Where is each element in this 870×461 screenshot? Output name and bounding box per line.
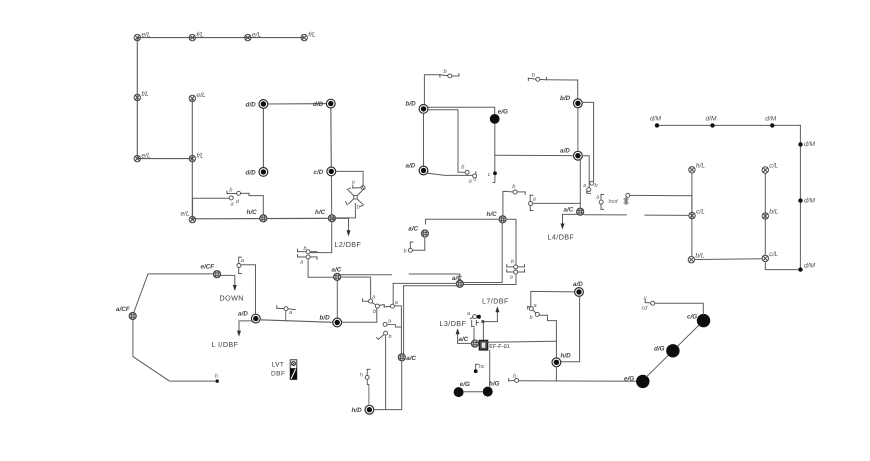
- legend symbol: [290, 360, 297, 380]
- wire corner to h/C: [426, 219, 499, 224]
- wire: [137, 38, 192, 159]
- lamp e/L: [245, 31, 262, 41]
- svg-text:a/D: a/D: [560, 148, 570, 155]
- wire h/D down to bottom bus: [555, 367, 557, 381]
- wire EF box right to h/D drop: [488, 341, 557, 342]
- wire switch b to h/D: [539, 315, 556, 358]
- svg-text:e/L: e/L: [142, 31, 151, 38]
- wire switch to b/D: [547, 80, 578, 99]
- wire switch down corner to a/C: [463, 274, 516, 285]
- svg-text:d/D: d/D: [313, 101, 324, 108]
- lamp f/L: [134, 91, 149, 101]
- wire c/L down to d/M: [765, 262, 798, 270]
- bracket hooks: [472, 320, 479, 326]
- wire fan to h/C: [336, 204, 356, 218]
- svg-text:c/L: c/L: [769, 163, 778, 170]
- svg-text:f/L: f/L: [197, 152, 205, 159]
- wire arrow base left to switch cluster: [483, 321, 497, 323]
- svg-text:d/G: d/G: [654, 345, 665, 352]
- svg-text:a: a: [534, 303, 537, 309]
- fan coil a/C: [459, 336, 479, 347]
- svg-text:a/D: a/D: [238, 310, 248, 317]
- downlight d/D: [246, 100, 268, 109]
- downlight b/D: [406, 101, 428, 114]
- svg-text:b: b: [404, 248, 407, 255]
- switch b,a two-gang: [227, 191, 249, 196]
- svg-text:a/C: a/C: [332, 266, 342, 273]
- switch b/a two-gang: [298, 249, 318, 259]
- wire a/D to b/D: [260, 320, 332, 323]
- svg-text:b: b: [444, 68, 447, 75]
- wire b/D right to e/G: [428, 107, 495, 113]
- L4/DBF arrow: [563, 214, 577, 223]
- switch h on stub above h/D: [367, 380, 369, 406]
- lamp f/L: [189, 152, 204, 162]
- svg-text:L4/DBF: L4/DBF: [548, 233, 575, 242]
- svg-text:d/M: d/M: [650, 115, 661, 122]
- lamp b/L: [762, 209, 779, 220]
- svg-text:a/C: a/C: [452, 275, 462, 282]
- wire line C left from corner to a/C: [404, 285, 457, 287]
- fan coil a/C: [398, 354, 416, 363]
- lamp c/L: [689, 208, 705, 219]
- node c: [493, 171, 497, 175]
- svg-text:d/M: d/M: [804, 197, 815, 204]
- svg-text:a: a: [533, 196, 536, 202]
- svg-text:e/G: e/G: [460, 381, 470, 388]
- wire switch a to vertical: [395, 306, 402, 353]
- fan coil symbol h/C: [247, 209, 267, 222]
- wire a/CF down diagonal to b point: [133, 320, 215, 381]
- switch u above fan: [353, 185, 361, 188]
- downlight b/D: [560, 95, 582, 108]
- svg-text:e/L: e/L: [142, 152, 151, 159]
- wire: [191, 98, 193, 219]
- svg-text:b/L: b/L: [769, 209, 778, 216]
- svg-text:e/L: e/L: [181, 211, 190, 218]
- fan coil a/CF: [116, 306, 136, 319]
- switch a on stub: [285, 311, 287, 321]
- fan coil h/C with bus: [487, 211, 507, 223]
- svg-text:b: b: [511, 258, 514, 265]
- wire b/D down to a/D: [577, 108, 579, 151]
- luminaire d/G: [654, 344, 680, 357]
- svg-text:h: h: [360, 372, 363, 379]
- svg-text:b: b: [215, 373, 218, 380]
- svg-text:a: a: [300, 260, 303, 266]
- right lamp column 1 vertical: [691, 173, 693, 256]
- switch pair a b: [590, 181, 594, 185]
- wire b/D to a/D vertical: [423, 113, 425, 166]
- svg-text:e/L: e/L: [197, 92, 206, 99]
- wire a/CF diagonal up to e/CF: [134, 274, 214, 313]
- downlight b/D: [320, 314, 342, 327]
- svg-text:a/C: a/C: [564, 207, 574, 214]
- svg-text:b: b: [532, 72, 535, 79]
- switch b: [440, 74, 459, 78]
- L1/DBF arrow: [239, 321, 251, 331]
- wire b/D337 right up to switch b: [342, 308, 377, 322]
- lamp c/L: [762, 163, 778, 174]
- lamp f/L: [301, 31, 316, 41]
- fan coil a/C: [452, 275, 463, 288]
- svg-text:e/CF: e/CF: [201, 263, 215, 270]
- L2/DBF arrow: [332, 218, 361, 249]
- svg-text:b: b: [229, 186, 232, 193]
- svg-text:hc: hc: [479, 363, 485, 370]
- wire a/C right to corner down to switch a: [341, 277, 371, 299]
- svg-text:d/M: d/M: [804, 141, 815, 148]
- wire a/D top loop: [531, 291, 575, 306]
- luminaire e/G: [454, 381, 470, 397]
- right column: switch b top: [528, 77, 546, 80]
- switch a mid: [384, 305, 390, 308]
- wire c/D col to h/C: [330, 176, 332, 215]
- svg-text:a/CF: a/CF: [116, 306, 130, 313]
- wire EF box down to h/G: [489, 350, 491, 386]
- downlight d/D: [313, 99, 335, 108]
- svg-text:L I/DBF: L I/DBF: [212, 340, 239, 349]
- svg-text:a/C: a/C: [459, 336, 469, 343]
- downlight a/D: [560, 148, 582, 161]
- svg-text:b: b: [461, 164, 464, 171]
- luminaire c/G: [687, 313, 710, 327]
- fan coil a/C: [564, 207, 584, 216]
- svg-text:a: a: [395, 300, 398, 306]
- switch a pair angled: [363, 299, 369, 302]
- lamp e/L: [181, 211, 196, 223]
- svg-text:EF-F-01: EF-F-01: [489, 344, 509, 350]
- node b: [216, 379, 219, 382]
- wire arrow base to a/C: [458, 342, 471, 344]
- wire e/G down to c node: [494, 124, 496, 171]
- switch b: [506, 191, 526, 194]
- svg-text:u: u: [644, 296, 647, 302]
- switch a hook upper of diagonal pair: [383, 322, 387, 326]
- hcd sensor: [626, 193, 630, 197]
- wire c/G up to u/cd switch: [655, 303, 703, 314]
- fan coil a/C: [332, 266, 342, 280]
- svg-text:d/M: d/M: [765, 115, 776, 122]
- svg-text:a/D: a/D: [573, 281, 583, 288]
- hc sensor: [474, 369, 478, 373]
- svg-text:b/D: b/D: [560, 95, 571, 102]
- svg-text:a: a: [583, 183, 586, 189]
- switch b diagonal: [384, 331, 388, 335]
- svg-text:c/L: c/L: [769, 251, 778, 258]
- switch a: [529, 307, 533, 311]
- wire switch down to a/C: [473, 328, 475, 339]
- svg-text:d/D: d/D: [246, 102, 257, 109]
- svg-text:a: a: [596, 194, 599, 200]
- lamp h/L: [689, 163, 706, 174]
- ceiling fan switch: [346, 186, 364, 207]
- wire bus segment 2: [645, 214, 689, 216]
- wire bus a/C to lamp: [584, 214, 626, 216]
- wire a/D down to a/C: [579, 160, 581, 208]
- svg-text:h/C: h/C: [487, 211, 498, 218]
- d/M bus horizontal: [657, 124, 800, 126]
- svg-text:d/D: d/D: [246, 169, 257, 176]
- svg-text:b/D: b/D: [320, 314, 331, 321]
- lamp e/L: [189, 92, 206, 102]
- svg-text:a: a: [469, 178, 472, 184]
- svg-text:a: a: [372, 295, 375, 301]
- wire: [137, 37, 304, 39]
- downlight c/D: [314, 167, 336, 176]
- wire a/D down to h/D: [561, 297, 580, 362]
- switch a above: [239, 257, 242, 263]
- switch a with brackets: [601, 194, 604, 200]
- switch a with wire to a/D drop: [530, 195, 533, 201]
- switch b below: [372, 303, 376, 305]
- DOWN arrow: [233, 285, 237, 291]
- lamp b/L: [688, 252, 705, 263]
- svg-text:d/M: d/M: [706, 115, 717, 122]
- svg-text:L7/DBF: L7/DBF: [482, 297, 509, 306]
- wire corner C down to a/C 401: [403, 286, 405, 355]
- svg-text:b: b: [595, 182, 598, 189]
- node d/M: [706, 115, 717, 127]
- svg-text:L3/DBF: L3/DBF: [440, 319, 467, 328]
- svg-text:b: b: [389, 333, 392, 340]
- lamp f/L: [189, 31, 204, 41]
- wire e/CF right to DOWN arrow: [221, 275, 235, 285]
- diagonal wire e/G to c/G: [647, 325, 700, 377]
- node d/M: [798, 141, 815, 148]
- node d/M: [798, 262, 815, 271]
- wire a/D right to switch: [428, 173, 472, 175]
- wire line B left from corner to a/C: [393, 282, 456, 284]
- svg-text:b: b: [512, 183, 515, 190]
- wire h/C right down to switch pair b/a: [506, 219, 516, 264]
- svg-text:f/L: f/L: [142, 91, 150, 98]
- downlight a/D: [406, 162, 428, 175]
- wire h/C down to switch pair: [311, 222, 332, 253]
- switch cluster b a d: [465, 170, 469, 174]
- svg-text:e/L: e/L: [252, 31, 261, 38]
- svg-text:c/G: c/G: [687, 313, 697, 320]
- svg-text:b/L: b/L: [695, 252, 704, 259]
- svg-text:b: b: [530, 314, 533, 321]
- svg-text:h/C: h/C: [247, 209, 258, 216]
- wire main bus y=218.6: [192, 218, 332, 219]
- svg-text:c: c: [488, 172, 491, 178]
- svg-text:f/L: f/L: [308, 31, 316, 38]
- fan coil symbol h/C: [315, 209, 336, 222]
- svg-text:h/C: h/C: [315, 209, 326, 216]
- switch b on bottom bus: [509, 378, 515, 381]
- switch b: [533, 310, 536, 313]
- svg-text:LVT: LVT: [272, 361, 285, 368]
- lamp e/L: [134, 152, 151, 162]
- svg-text:d: d: [236, 198, 240, 205]
- svg-text:L2/DBF: L2/DBF: [335, 240, 362, 249]
- wire: [263, 103, 330, 105]
- downlight a/D: [238, 310, 260, 323]
- d/M bus vertical: [799, 125, 801, 269]
- svg-text:a: a: [467, 311, 470, 317]
- luminaire h/G: [483, 380, 500, 396]
- wire switch b down to b/D: [424, 75, 440, 105]
- node d/M: [650, 115, 661, 127]
- wire bottom bus to e/G: [519, 380, 637, 383]
- svg-text:a/D: a/D: [406, 162, 416, 169]
- switch a circle: [473, 315, 477, 319]
- svg-text:h/D: h/D: [352, 407, 363, 414]
- wire to a/D right: [495, 154, 574, 156]
- wire h/C up to switch b: [503, 191, 506, 215]
- wire e/G to h/G: [464, 391, 482, 393]
- svg-text:c/L: c/L: [696, 208, 705, 215]
- wire corner B down to switch a: [392, 283, 394, 304]
- wire switch to a/C: [308, 259, 333, 277]
- wire b/D right corner down: [582, 102, 593, 181]
- svg-text:u: u: [352, 180, 355, 186]
- EF-F-01 box: [479, 340, 510, 350]
- downlight d/D: [246, 168, 268, 177]
- node dot: [477, 315, 481, 319]
- wire branch to switch b/a: [193, 198, 229, 219]
- svg-text:h/L: h/L: [696, 163, 705, 170]
- wire switch to h/C: [249, 196, 263, 215]
- wire: [262, 104, 264, 172]
- fan coil a/C: [408, 226, 428, 237]
- svg-text:b/D: b/D: [406, 101, 417, 108]
- svg-text:a: a: [241, 258, 244, 264]
- wire hcd to lamp column: [630, 195, 692, 211]
- svg-text:a: a: [510, 275, 513, 281]
- downlight h/D: [352, 405, 374, 414]
- wire: [330, 104, 333, 172]
- node d/M: [798, 197, 815, 204]
- switch b: [410, 242, 413, 248]
- svg-text:e/G: e/G: [624, 376, 634, 383]
- downlight a/D: [573, 281, 583, 296]
- svg-text:d/M: d/M: [804, 262, 815, 269]
- L7 arrow up: [496, 312, 498, 322]
- svg-text:h/G: h/G: [489, 380, 500, 387]
- svg-text:b: b: [513, 373, 516, 380]
- svg-text:DOWN: DOWN: [220, 294, 244, 303]
- fan coil e/CF: [201, 263, 221, 277]
- svg-text:a: a: [231, 202, 234, 208]
- wire switch b down to h/D wire: [385, 335, 387, 409]
- wire a/D right corner down: [582, 156, 589, 188]
- svg-text:b: b: [357, 204, 360, 211]
- wire h/C bottom to a/C upper: [463, 223, 502, 283]
- lamp c/L: [762, 251, 778, 262]
- wire a/C loop to switch b: [413, 237, 425, 250]
- wire c/D to u switch: [331, 171, 363, 185]
- svg-text:hcd: hcd: [609, 198, 619, 205]
- luminaire e/G: [490, 109, 508, 124]
- svg-text:e/G: e/G: [498, 109, 508, 116]
- lamp e/L: [134, 31, 151, 41]
- downlight h/D: [552, 352, 571, 366]
- svg-text:a/C: a/C: [408, 226, 418, 233]
- svg-text:h/D: h/D: [561, 352, 572, 359]
- switch u/cd: [651, 301, 655, 305]
- node d/M: [765, 115, 776, 127]
- svg-text:a: a: [388, 318, 391, 324]
- wire bracket down to EF box: [482, 323, 484, 340]
- wire b/L to c/L right column: [695, 258, 762, 261]
- svg-text:b: b: [304, 245, 307, 252]
- right lamp column 2 vertical: [764, 173, 766, 255]
- switch pair b/a on vertical: [507, 264, 525, 272]
- wire a/C down to b/D: [336, 281, 338, 318]
- svg-text:DBF: DBF: [271, 371, 285, 378]
- wire line A right of a/C: [341, 274, 392, 276]
- svg-text:a: a: [289, 310, 292, 316]
- svg-text:cd: cd: [642, 305, 649, 312]
- svg-text:a/C: a/C: [406, 355, 416, 362]
- wire line A second segment: [409, 274, 460, 280]
- svg-text:c/D: c/D: [314, 169, 324, 176]
- L3 arrow up: [457, 334, 459, 343]
- wire switch a to a/D drop: [241, 265, 256, 314]
- luminaire e/G: [624, 375, 650, 388]
- wire b/D right corner down to switch cluster: [428, 110, 465, 173]
- wire a/C down and left to h/D: [374, 361, 402, 410]
- svg-text:f/L: f/L: [197, 31, 205, 38]
- svg-text:b: b: [373, 308, 376, 315]
